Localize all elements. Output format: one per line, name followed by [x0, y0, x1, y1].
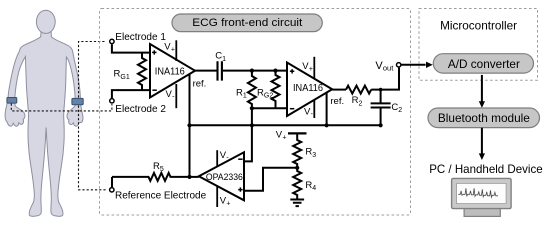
svg-text:PC / Handheld Device: PC / Handheld Device: [429, 163, 543, 176]
node rail-ref1: [187, 123, 191, 127]
U2 V- pin: [313, 100, 315, 118]
node R3/R4: [295, 166, 299, 170]
dashed lead wrist to Electrode 1: [79, 42, 107, 98]
resistor R2: [346, 86, 371, 94]
svg-text:ref.: ref.: [193, 78, 207, 89]
Bluetooth module pill: [428, 108, 540, 128]
arrow Bluetooth to PC: [481, 128, 483, 154]
U3 V- pin: [216, 150, 218, 167]
svg-text:Microcontroller: Microcontroller: [440, 19, 517, 32]
svg-text:+: +: [171, 46, 175, 53]
svg-text:G2: G2: [264, 93, 273, 100]
svg-text:Reference Electrode: Reference Electrode: [115, 191, 207, 202]
wire U2 out to R2: [332, 89, 346, 91]
wire R1 node to U2 -: [252, 107, 287, 109]
svg-text:4: 4: [312, 185, 316, 192]
wristband electrode left: [7, 98, 17, 104]
resistor R3: [293, 133, 301, 167]
U1 V- pin: [175, 84, 177, 108]
electrode 2 terminal: [110, 99, 114, 103]
U3 V+ pin: [216, 186, 218, 207]
V+ supply bar over R3: [288, 132, 307, 134]
wire electrode2 to U1 -: [112, 90, 150, 98]
svg-text:ref.: ref.: [330, 96, 344, 107]
U1 V+ pin: [175, 40, 177, 61]
monitor ECG trace: [458, 188, 498, 197]
ECG front-end circuit title pill: [172, 14, 322, 32]
monitor stand: [464, 209, 500, 217]
node C2 top: [379, 88, 383, 92]
ground: [290, 200, 304, 207]
wire Vout to A/D with arrow: [402, 64, 426, 66]
svg-text:Electrode 1: Electrode 1: [115, 32, 166, 43]
svg-text:3: 3: [312, 152, 316, 159]
Microcontroller dashed box: [419, 9, 538, 81]
op-amp U1 INA116: [150, 44, 195, 98]
node rail-C2: [379, 123, 383, 127]
svg-text:G1: G1: [120, 74, 129, 81]
Vout terminal: [397, 63, 401, 67]
op-amp U3 OPA2336: [199, 152, 244, 200]
U2 V+ pin: [313, 57, 315, 79]
node R5-U3out: [187, 175, 191, 179]
svg-text:out: out: [383, 63, 394, 72]
svg-text:ECG front-end circuit: ECG front-end circuit: [192, 17, 303, 29]
resistor R1: [248, 71, 256, 109]
wire U3 out / R5 junction: [190, 176, 199, 178]
wire R5 to reference terminal: [111, 177, 113, 187]
op-amp U2 INA116: [287, 63, 332, 117]
resistor RG1: [138, 53, 146, 91]
wire ref1 pin down to R5 node: [189, 125, 191, 177]
svg-text:5: 5: [160, 166, 164, 173]
svg-text:2: 2: [359, 100, 363, 107]
wristband electrode right: [72, 98, 83, 104]
svg-text:INA116: INA116: [155, 67, 186, 78]
svg-text:INA116: INA116: [293, 83, 324, 94]
monitor icon: [452, 178, 512, 208]
dashed lead wrist to Reference Electrode: [79, 106, 106, 190]
feedback wire R1 node to U3 -: [244, 108, 252, 161]
resistor R4: [293, 168, 301, 200]
svg-text:1: 1: [222, 56, 226, 63]
svg-text:2: 2: [398, 107, 402, 114]
svg-text:A/D converter: A/D converter: [448, 58, 520, 71]
wire C1 to U2 +: [223, 70, 287, 72]
svg-text:Bluetooth module: Bluetooth module: [438, 112, 530, 125]
node rail-R1: [250, 123, 254, 127]
svg-text:OPA2336: OPA2336: [206, 172, 243, 182]
ECG front-end circuit dashed box: [100, 9, 411, 216]
reference electrode terminal: [110, 188, 114, 192]
node RG2 top: [273, 69, 277, 73]
wire R3/R4 node to U3 +: [244, 168, 297, 191]
capacitor C2: [371, 90, 391, 126]
svg-text:+: +: [282, 135, 286, 142]
capacitor C1: [218, 61, 222, 80]
U1 ref pin: [189, 75, 191, 126]
node R1 top: [250, 69, 254, 73]
U2 ref pin: [326, 92, 328, 125]
wire electrode1 to U1 +: [112, 44, 150, 52]
resistor RG2: [272, 71, 280, 109]
A/D converter pill: [433, 54, 533, 73]
node R1 bottom: [250, 106, 254, 110]
resistor R5: [112, 173, 190, 181]
wire U1 out to C1: [195, 70, 217, 72]
wire R2 to Vout: [371, 68, 399, 90]
human body silhouette: [5, 10, 83, 216]
dashed lead wrist to Electrode 2: [11, 104, 112, 111]
svg-text:+: +: [309, 66, 313, 73]
svg-text:+: +: [226, 200, 230, 207]
svg-text:1: 1: [243, 93, 247, 100]
arrow A/D to Bluetooth: [481, 75, 483, 102]
ground rail wire: [190, 124, 381, 126]
svg-text:Electrode 2: Electrode 2: [115, 104, 166, 115]
electrode 1 terminal: [110, 39, 114, 43]
node rail-ref2: [325, 123, 329, 127]
